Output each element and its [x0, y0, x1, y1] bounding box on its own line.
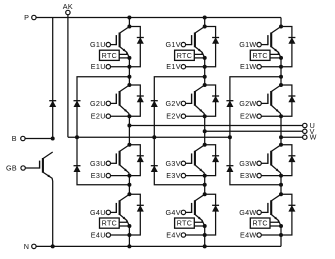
- diode D3V free-wheel: [212, 156, 219, 162]
- svg-text:G2W: G2W: [239, 99, 256, 108]
- svg-text:E2V: E2V: [166, 112, 181, 121]
- wire G4W gate lead: [261, 211, 268, 213]
- diode W clamp lower: [226, 166, 233, 172]
- wire B lead: [25, 138, 53, 140]
- node U rail on P bus: [127, 16, 131, 20]
- wire RTC4V pin to emitter node: [194, 225, 204, 227]
- wire V rail collector stub: [204, 18, 206, 27]
- node brake emitter on N bus: [51, 244, 55, 248]
- wire D2W branch: [281, 85, 292, 116]
- wire D3W branch: [281, 145, 292, 176]
- svg-text:E4W: E4W: [240, 231, 256, 240]
- wire U clamp chain: [77, 77, 129, 185]
- svg-text:E2U: E2U: [91, 112, 106, 121]
- wire V rail T1-T2 section: [204, 58, 206, 85]
- wire brake column (P to B node): [52, 18, 54, 139]
- wire W rail T3-T4 section: [280, 176, 282, 195]
- node Q3V emitter: [203, 174, 207, 178]
- svg-text:G1W: G1W: [239, 40, 256, 49]
- wire RTC1W pin to emitter path: [270, 52, 278, 54]
- svg-text:E3W: E3W: [240, 171, 256, 180]
- svg-text:AK: AK: [63, 2, 73, 11]
- svg-text:G3W: G3W: [239, 159, 256, 168]
- wire RTC1U pin to emitter path: [119, 52, 127, 54]
- node Q1W emitter: [279, 56, 283, 60]
- wire U rail emitter to N: [128, 226, 130, 246]
- diode D2V free-wheel: [212, 96, 219, 102]
- wire N bus (negative rail): [36, 245, 281, 247]
- svg-text:RTC: RTC: [102, 52, 117, 60]
- svg-text:B: B: [12, 134, 17, 143]
- wire G1V gate lead: [186, 44, 192, 46]
- transistor IGBT Q1U: [116, 27, 129, 58]
- terminal B: [12, 134, 25, 143]
- RTC gate control block for Q4W: [250, 218, 270, 228]
- node E1U junction: [127, 65, 131, 69]
- node V rail on P bus: [203, 16, 207, 20]
- transistor IGBT Q4W: [268, 194, 281, 226]
- wire W rail mid section: [280, 116, 282, 145]
- terminal G1W: [239, 40, 261, 49]
- svg-text:E1W: E1W: [240, 62, 256, 71]
- wire G3V gate lead: [186, 162, 192, 164]
- svg-text:P: P: [24, 13, 29, 22]
- node U rail on N bus: [127, 244, 131, 248]
- wire U output line: [129, 125, 302, 127]
- wire U rail T1-T2 section: [128, 58, 130, 85]
- diode D4W free-wheel: [288, 205, 295, 211]
- terminal V output: [303, 127, 315, 136]
- node Q4V collector: [203, 192, 207, 196]
- node Q4W collector: [279, 192, 283, 196]
- wire RTC4W pin to emitter path: [270, 220, 278, 222]
- wire E3U lead: [111, 175, 130, 177]
- wire GB gate lead: [25, 167, 39, 169]
- node Q2U collector: [127, 83, 131, 87]
- terminal E4U: [91, 231, 111, 240]
- diode D3W free-wheel: [288, 156, 295, 162]
- wire V output line: [205, 130, 303, 132]
- wire RTC1V pin to emitter node: [194, 57, 204, 59]
- terminal GB: [6, 164, 25, 173]
- transistor brake IGBT QB: [40, 152, 53, 181]
- transistor IGBT Q1V: [192, 27, 205, 58]
- wire E4W lead: [261, 234, 281, 236]
- node E4U junction: [127, 233, 131, 237]
- diode U clamp upper: [74, 101, 81, 107]
- RTC gate control block for Q1V: [175, 50, 195, 60]
- wire U rail collector stub: [128, 18, 130, 27]
- RTC gate control block for Q1U: [100, 50, 120, 60]
- wire D3V branch: [205, 145, 216, 176]
- wire G1W gate lead: [261, 44, 268, 46]
- node E4V junction: [203, 233, 207, 237]
- terminal G3W: [239, 159, 261, 168]
- terminal G2U: [90, 99, 110, 108]
- wire D2V branch: [205, 85, 216, 116]
- wire G4V gate lead: [186, 211, 192, 213]
- wire W rail emitter to N: [280, 226, 282, 246]
- terminal E1V: [166, 62, 185, 71]
- wire V rail mid section: [204, 116, 206, 145]
- node E4W junction: [279, 233, 283, 237]
- svg-text:G1U: G1U: [90, 40, 106, 49]
- wire G4U gate lead: [111, 211, 117, 213]
- wire D1W branch: [281, 27, 292, 67]
- transistor IGBT Q1W: [268, 27, 281, 58]
- svg-text:RTC: RTC: [252, 220, 267, 228]
- svg-text:E4V: E4V: [166, 231, 181, 240]
- svg-text:RTC: RTC: [102, 220, 117, 228]
- wire E4U lead: [111, 234, 130, 236]
- node V output junction: [203, 129, 207, 133]
- wire RTC4V pin to emitter path: [194, 220, 202, 222]
- node Q4U emitter: [127, 224, 131, 228]
- wire U rail T3-T4 section: [128, 176, 130, 195]
- node AK-V clamp midpoint: [152, 135, 156, 139]
- svg-text:G1V: G1V: [166, 40, 181, 49]
- wire RTC4U pin to emitter node: [119, 225, 129, 227]
- node Q3W collector: [279, 143, 283, 147]
- wire E1V lead: [186, 66, 205, 68]
- node Q3W emitter: [279, 174, 283, 178]
- transistor IGBT Q4V: [192, 194, 205, 226]
- node E1V junction: [203, 65, 207, 69]
- wire AK bus to clamp midpoints: [68, 136, 230, 138]
- wire RTC4W pin to emitter node: [270, 225, 281, 227]
- svg-text:G2U: G2U: [90, 99, 106, 108]
- wire D4W branch: [281, 194, 292, 235]
- wire E3V lead: [186, 175, 205, 177]
- diode D1W free-wheel: [288, 38, 295, 44]
- svg-text:RTC: RTC: [252, 52, 267, 60]
- diode V clamp lower: [151, 166, 158, 172]
- terminal G2W: [239, 99, 261, 108]
- wire E1U lead: [111, 66, 130, 68]
- svg-text:RTC: RTC: [177, 220, 192, 228]
- terminal E2U: [91, 112, 111, 121]
- wire brake emitter to N: [52, 181, 54, 246]
- node W clamp top on rail: [279, 75, 283, 79]
- wire D4V branch: [205, 194, 216, 235]
- wire U rail mid section: [128, 116, 130, 145]
- svg-text:W: W: [310, 133, 317, 142]
- terminal E1U: [91, 62, 111, 71]
- node B junction: [51, 137, 55, 141]
- node Q2W collector: [279, 83, 283, 87]
- node Q1V emitter: [203, 56, 207, 60]
- node V clamp top on rail: [203, 75, 207, 79]
- terminal G1V: [166, 40, 186, 49]
- node W output junction: [279, 135, 283, 139]
- node U output junction: [127, 124, 131, 128]
- svg-text:E2W: E2W: [240, 112, 256, 121]
- node Q3V collector: [203, 143, 207, 147]
- svg-text:E3U: E3U: [91, 171, 106, 180]
- svg-text:E3V: E3V: [166, 171, 181, 180]
- wire E1W lead: [261, 66, 281, 68]
- terminal G1U: [90, 40, 110, 49]
- wire RTC1W pin to emitter node: [270, 57, 281, 59]
- transistor IGBT Q3W: [268, 145, 281, 176]
- wire RTC1U pin to emitter node: [119, 57, 129, 59]
- terminal G2V: [166, 99, 186, 108]
- wire E2V lead: [186, 115, 205, 117]
- node Q2V collector: [203, 83, 207, 87]
- wire W clamp chain: [230, 77, 281, 185]
- svg-text:G4W: G4W: [239, 208, 256, 217]
- wire D4U branch: [129, 194, 140, 235]
- diode D1V free-wheel: [212, 38, 219, 44]
- terminal U output: [303, 121, 316, 130]
- terminal G3U: [90, 159, 110, 168]
- node Q1U emitter: [127, 56, 131, 60]
- wire W rail T1-T2 section: [280, 58, 282, 85]
- diode D2W free-wheel: [288, 96, 295, 102]
- wire V rail emitter to N: [204, 226, 206, 246]
- node AK-U clamp midpoint: [75, 135, 79, 139]
- node U clamp top on rail: [127, 75, 131, 79]
- wire G2U gate lead: [111, 102, 117, 104]
- terminal G4V: [166, 208, 186, 217]
- RTC gate control block for Q1W: [250, 50, 270, 60]
- terminal E4W: [240, 231, 261, 240]
- wire D1V branch: [205, 27, 216, 67]
- node AK-W clamp midpoint: [228, 135, 232, 139]
- svg-text:RTC: RTC: [177, 52, 192, 60]
- node Q3U collector: [127, 143, 131, 147]
- node Q4V emitter: [203, 224, 207, 228]
- node V clamp bottom on rail: [203, 183, 207, 187]
- wire V rail T3-T4 section: [204, 176, 206, 195]
- wire W output line: [281, 136, 303, 138]
- diode brake free-wheel (B to P): [49, 101, 56, 107]
- wire D2U branch: [129, 85, 140, 116]
- node Q2W emitter: [279, 114, 283, 118]
- transistor IGBT Q3V: [192, 145, 205, 176]
- terminal N: [24, 242, 36, 251]
- wire RTC4U pin to emitter path: [119, 220, 127, 222]
- RTC gate control block for Q4V: [175, 218, 195, 228]
- transistor IGBT Q2U: [116, 85, 129, 116]
- wire E2W lead: [261, 115, 281, 117]
- svg-text:G4U: G4U: [90, 208, 106, 217]
- wire E4V lead: [186, 234, 205, 236]
- node Q4W emitter: [279, 224, 283, 228]
- node Q2V emitter: [203, 114, 207, 118]
- wire RTC1V pin to emitter path: [194, 52, 202, 54]
- transistor IGBT Q2V: [192, 85, 205, 116]
- transistor IGBT Q4U: [116, 194, 129, 226]
- wire E3W lead: [261, 175, 281, 177]
- diode D2U free-wheel: [137, 96, 144, 102]
- svg-text:N: N: [24, 242, 30, 251]
- transistor IGBT Q3U: [116, 145, 129, 176]
- diode D3U free-wheel: [137, 156, 144, 162]
- node U clamp bottom on rail: [127, 183, 131, 187]
- svg-text:E1U: E1U: [91, 62, 106, 71]
- diode D4V free-wheel: [212, 205, 219, 211]
- node W clamp bottom on rail: [279, 183, 283, 187]
- node Q2U emitter: [127, 114, 131, 118]
- wire E2U lead: [111, 115, 130, 117]
- svg-text:G2V: G2V: [166, 99, 181, 108]
- node Q1V collector: [203, 25, 207, 29]
- svg-text:E1V: E1V: [166, 62, 181, 71]
- wire D3U branch: [129, 145, 140, 176]
- node Q4U collector: [127, 192, 131, 196]
- node Q1U collector: [127, 25, 131, 29]
- wire D1U branch: [129, 27, 140, 67]
- wire G2V gate lead: [186, 102, 192, 104]
- node E1W junction: [279, 65, 283, 69]
- svg-text:GB: GB: [6, 164, 17, 173]
- diode U clamp lower: [74, 166, 81, 172]
- node Q3U emitter: [127, 174, 131, 178]
- terminal P: [24, 13, 36, 22]
- wire P bus (positive rail): [36, 17, 281, 19]
- svg-text:E4U: E4U: [91, 231, 106, 240]
- diode V clamp upper: [151, 101, 158, 107]
- terminal AK: [63, 2, 73, 15]
- terminal E3U: [91, 171, 111, 180]
- terminal E4V: [166, 231, 185, 240]
- svg-text:G4V: G4V: [166, 208, 181, 217]
- terminal E2V: [166, 112, 185, 121]
- wire V clamp chain: [154, 77, 204, 185]
- transistor IGBT Q2W: [268, 85, 281, 116]
- terminal G4W: [239, 208, 261, 217]
- svg-text:G3U: G3U: [90, 159, 106, 168]
- terminal W output: [303, 133, 317, 142]
- diode D4U free-wheel: [137, 205, 144, 211]
- node Q1W collector: [279, 25, 283, 29]
- terminal E3W: [240, 171, 261, 180]
- RTC gate control block for Q4U: [100, 218, 120, 228]
- terminal E2W: [240, 112, 261, 121]
- diode D1U free-wheel: [137, 38, 144, 44]
- svg-text:G3V: G3V: [166, 159, 181, 168]
- wire W rail collector stub: [280, 18, 282, 27]
- terminal G3V: [166, 159, 186, 168]
- wire G2W gate lead: [261, 102, 268, 104]
- terminal G4U: [90, 208, 110, 217]
- wire G3U gate lead: [111, 162, 117, 164]
- terminal E1W: [240, 62, 261, 71]
- wire G1U gate lead: [111, 44, 117, 46]
- node V rail on N bus: [203, 244, 207, 248]
- terminal E3V: [166, 171, 185, 180]
- wire AK vertical (crosses P bus, no connection): [67, 15, 69, 138]
- diode W clamp upper: [226, 101, 233, 107]
- wire G3W gate lead: [261, 162, 268, 164]
